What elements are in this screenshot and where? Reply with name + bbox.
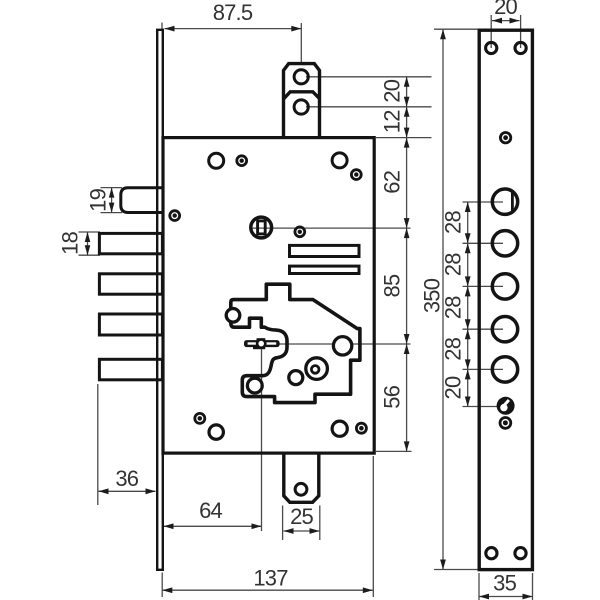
svg-text:20: 20 [494,0,517,19]
svg-text:87.5: 87.5 [213,0,253,25]
svg-text:28: 28 [440,296,465,319]
svg-text:19: 19 [85,188,110,211]
svg-text:56: 56 [380,385,405,408]
svg-text:137: 137 [253,565,288,590]
svg-text:62: 62 [380,170,405,193]
svg-text:25: 25 [290,504,313,529]
svg-text:28: 28 [440,337,465,360]
svg-text:35: 35 [493,570,516,595]
svg-text:18: 18 [58,231,83,254]
svg-text:28: 28 [440,211,465,234]
svg-text:64: 64 [199,498,222,523]
svg-text:85: 85 [380,274,405,297]
svg-text:12: 12 [380,110,405,133]
svg-text:28: 28 [440,253,465,276]
svg-text:20: 20 [380,79,405,102]
svg-text:36: 36 [115,466,138,491]
svg-text:20: 20 [440,376,465,399]
